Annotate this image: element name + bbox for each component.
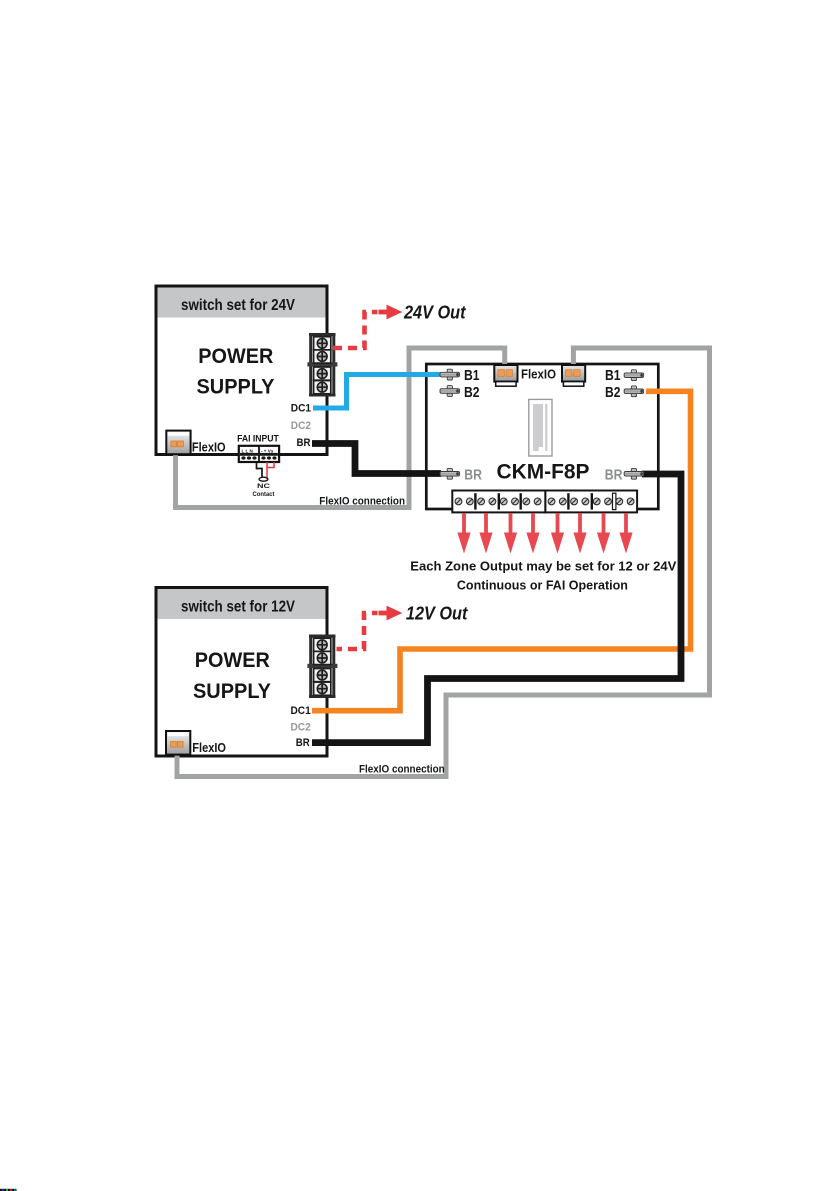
svg-text:CKM-F8P: CKM-F8P	[497, 460, 590, 484]
wire: black BR 12V to U1 right BR	[312, 474, 681, 743]
zone arrow 6	[573, 513, 586, 554]
wire: gray FlexIO connection PS2 to U1 connector J2	[177, 348, 710, 777]
wire: blue DC1 24V to B1	[313, 375, 440, 409]
svg-text:switch set for 24V: switch set for 24V	[181, 297, 296, 314]
svg-text:DC2: DC2	[291, 722, 311, 734]
svg-text:DC2: DC2	[291, 420, 311, 432]
zone arrow 5	[551, 513, 564, 554]
U1 fuse F5 (left BR)	[440, 468, 460, 479]
PS1 FlexIO port	[166, 431, 190, 455]
svg-text:FAI INPUT: FAI INPUT	[237, 434, 279, 444]
svg-text:NC: NC	[257, 483, 270, 490]
svg-text:B1: B1	[464, 368, 480, 384]
U1 fuse F6 (right BR)	[624, 468, 644, 479]
wire: black NC contact lead	[257, 462, 263, 478]
svg-text:L L N: L L N	[242, 449, 254, 454]
red 24V out arrow	[379, 305, 403, 320]
svg-text:FlexIO: FlexIO	[192, 740, 226, 755]
svg-text:BR: BR	[605, 468, 623, 484]
zone arrow 8	[619, 513, 632, 554]
NC contact symbol	[259, 477, 268, 481]
svg-text:Contact: Contact	[253, 491, 276, 498]
svg-text:BR: BR	[296, 737, 310, 749]
svg-text:FlexIO connection: FlexIO connection	[319, 495, 405, 507]
power supply PS1 (24V) box	[156, 286, 327, 455]
U1 relay jumper symbol	[529, 399, 552, 456]
svg-text:24V Out: 24V Out	[403, 302, 466, 323]
wire: black BR 24V to U1 left BR	[312, 444, 441, 474]
PS1 header band	[158, 288, 326, 318]
svg-text:FlexIO: FlexIO	[192, 439, 226, 454]
page corner mark	[0, 1189, 17, 1191]
svg-text:BR: BR	[464, 468, 482, 484]
zone arrow 1	[457, 513, 470, 554]
red dashed 12V out line	[333, 613, 378, 649]
zone arrow 7	[597, 513, 610, 554]
wire: red NC contact leads	[266, 462, 274, 479]
svg-text:SUPPLY: SUPPLY	[197, 375, 275, 399]
PS1 FAI input connector J3	[239, 446, 279, 462]
svg-text:switch set for 12V: switch set for 12V	[181, 599, 296, 616]
module U1 CKM-F8P box	[426, 364, 658, 509]
svg-text:B2: B2	[464, 385, 480, 401]
PS2 terminal block TB2	[307, 635, 337, 699]
zone arrow 4	[526, 513, 539, 554]
PS2 header band	[158, 589, 326, 619]
zone arrow 2	[479, 513, 492, 554]
svg-text:POWER: POWER	[198, 344, 273, 368]
U1 output terminal strip TS2	[545, 491, 637, 513]
svg-text:DC1: DC1	[291, 403, 311, 415]
power supply PS2 (12V) box	[156, 588, 327, 757]
U1 FlexIO connector J1	[494, 365, 517, 386]
svg-text:Continuous or FAI Operation: Continuous or FAI Operation	[457, 578, 628, 593]
svg-text:B2: B2	[605, 385, 621, 401]
U1 fuse F2 (left B2)	[440, 386, 460, 397]
svg-text:Each Zone Output may be set fo: Each Zone Output may be set for 12 or 24…	[410, 559, 676, 574]
svg-text:SUPPLY: SUPPLY	[193, 679, 271, 703]
zone arrow 3	[504, 513, 517, 554]
svg-text:FlexIO: FlexIO	[521, 367, 556, 381]
svg-text:12V Out: 12V Out	[406, 603, 468, 624]
svg-text:B1: B1	[605, 368, 621, 384]
U1 fuse F1 (left B1)	[440, 369, 460, 380]
U1 fuse F4 (right B2)	[624, 386, 644, 397]
svg-text:POWER: POWER	[195, 648, 270, 672]
svg-text:BR: BR	[297, 437, 311, 449]
red 12V out arrow	[379, 606, 403, 621]
PS2 FlexIO port	[166, 731, 190, 755]
wire: gray FlexIO connection PS1 to U1 connector J1	[176, 348, 505, 508]
U1 output terminal strip TS1	[452, 491, 545, 513]
U1 fuse F3 (right B1)	[624, 370, 644, 381]
wire: orange DC1 12V to B2	[312, 391, 691, 710]
svg-text:FlexIO connection: FlexIO connection	[359, 764, 445, 776]
svg-text:DC1: DC1	[291, 705, 311, 717]
svg-text:- + Vs: - + Vs	[261, 449, 274, 454]
U1 FlexIO connector J2	[562, 365, 585, 386]
red dashed 24V out line	[333, 312, 378, 348]
PS1 terminal block TB1	[307, 333, 337, 397]
